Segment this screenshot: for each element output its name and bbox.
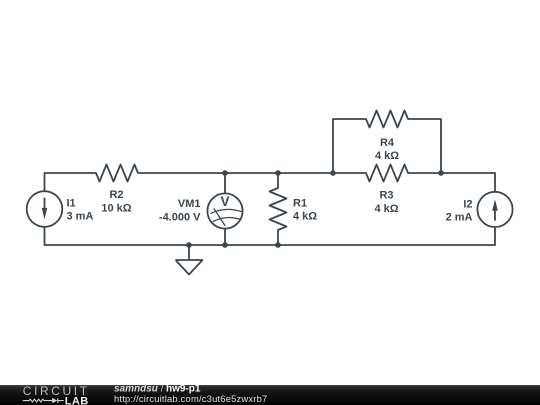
svg-text:-4.000 V: -4.000 V bbox=[159, 212, 201, 224]
svg-text:2 mA: 2 mA bbox=[446, 212, 473, 224]
svg-text:http://circuitlab.com/c3ut6e5z: http://circuitlab.com/c3ut6e5zwxrb7 bbox=[114, 393, 267, 404]
svg-text:3 mA: 3 mA bbox=[67, 211, 94, 223]
svg-text:4 kΩ: 4 kΩ bbox=[375, 150, 399, 162]
svg-text:10 kΩ: 10 kΩ bbox=[101, 203, 131, 215]
svg-text:4 kΩ: 4 kΩ bbox=[293, 211, 317, 223]
svg-text:R1: R1 bbox=[293, 198, 307, 210]
svg-text:I1: I1 bbox=[67, 198, 76, 210]
svg-text:I2: I2 bbox=[463, 199, 472, 211]
svg-text:R2: R2 bbox=[109, 189, 123, 201]
svg-text:V: V bbox=[220, 194, 229, 209]
svg-text:LAB: LAB bbox=[65, 395, 89, 405]
svg-text:VM1: VM1 bbox=[178, 198, 201, 210]
svg-text:4 kΩ: 4 kΩ bbox=[374, 203, 398, 215]
svg-text:R3: R3 bbox=[379, 190, 393, 202]
svg-text:R4: R4 bbox=[380, 137, 395, 149]
